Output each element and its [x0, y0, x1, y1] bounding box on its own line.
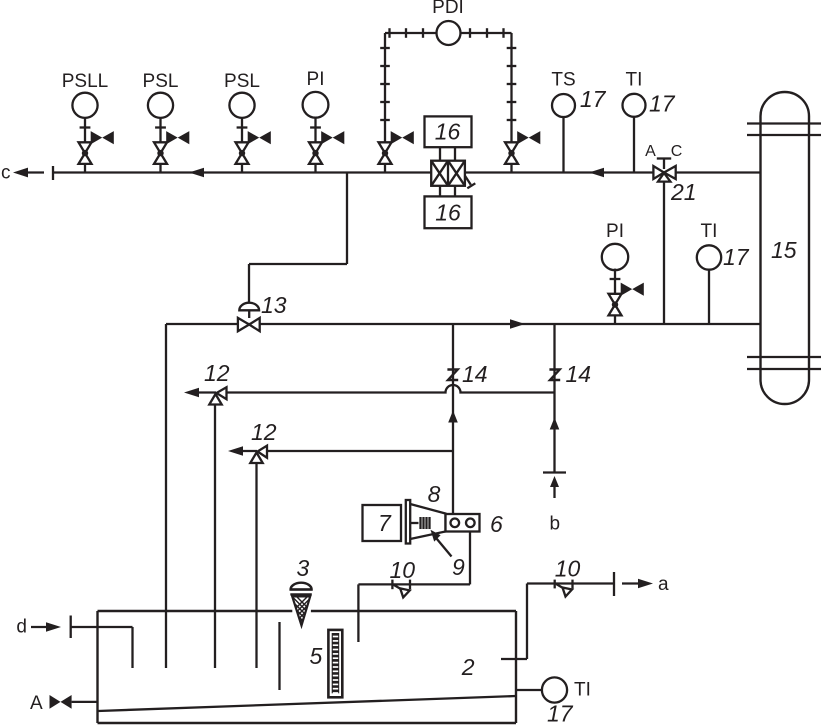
svg-text:15: 15 [771, 237, 797, 263]
svg-text:C: C [671, 143, 683, 160]
svg-text:21: 21 [670, 179, 697, 205]
svg-text:14: 14 [566, 361, 592, 387]
svg-text:10: 10 [555, 556, 581, 582]
svg-text:12: 12 [251, 419, 277, 445]
svg-text:17: 17 [580, 86, 607, 112]
svg-text:7: 7 [378, 510, 392, 536]
svg-text:PDI: PDI [432, 0, 464, 18]
svg-text:A: A [30, 693, 43, 714]
svg-text:c: c [1, 163, 11, 184]
svg-text:TI: TI [574, 680, 591, 701]
svg-text:PSL: PSL [143, 71, 179, 92]
svg-text:16: 16 [435, 200, 461, 226]
svg-text:17: 17 [723, 244, 750, 270]
svg-text:TI: TI [701, 221, 718, 242]
svg-text:5: 5 [310, 643, 323, 669]
svg-text:8: 8 [428, 481, 441, 507]
svg-text:17: 17 [649, 91, 676, 117]
svg-text:PI: PI [307, 69, 325, 90]
svg-text:TS: TS [551, 70, 575, 91]
svg-text:12: 12 [204, 360, 230, 386]
svg-text:2: 2 [461, 654, 475, 680]
svg-text:6: 6 [490, 511, 503, 537]
svg-text:13: 13 [261, 292, 287, 318]
svg-text:10: 10 [390, 557, 416, 583]
svg-text:PSLL: PSLL [62, 71, 108, 92]
svg-text:A: A [645, 143, 656, 160]
svg-text:PI: PI [606, 221, 624, 242]
svg-text:17: 17 [547, 701, 574, 727]
svg-text:a: a [658, 574, 669, 595]
svg-text:b: b [550, 514, 561, 535]
svg-text:16: 16 [435, 119, 461, 145]
svg-text:d: d [16, 617, 27, 638]
svg-text:PSL: PSL [224, 71, 260, 92]
svg-text:9: 9 [452, 554, 465, 580]
svg-text:14: 14 [462, 361, 488, 387]
svg-text:3: 3 [297, 555, 310, 581]
svg-text:TI: TI [626, 70, 643, 91]
